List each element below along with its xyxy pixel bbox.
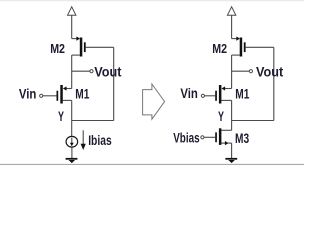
svg-text:M2: M2 bbox=[212, 42, 227, 56]
svg-text:Ibias: Ibias bbox=[88, 133, 112, 148]
svg-text:Vin: Vin bbox=[19, 86, 37, 101]
svg-text:M2: M2 bbox=[50, 42, 65, 56]
svg-text:M1: M1 bbox=[235, 86, 249, 102]
svg-text:Vout: Vout bbox=[94, 63, 121, 79]
svg-text:M1: M1 bbox=[75, 86, 89, 102]
svg-text:Vbias: Vbias bbox=[173, 130, 200, 146]
svg-text:Vout: Vout bbox=[256, 63, 283, 79]
svg-text:Vin: Vin bbox=[180, 86, 198, 101]
svg-text:Y: Y bbox=[58, 108, 64, 124]
svg-text:M3: M3 bbox=[235, 130, 249, 146]
svg-text:Y: Y bbox=[218, 108, 224, 124]
